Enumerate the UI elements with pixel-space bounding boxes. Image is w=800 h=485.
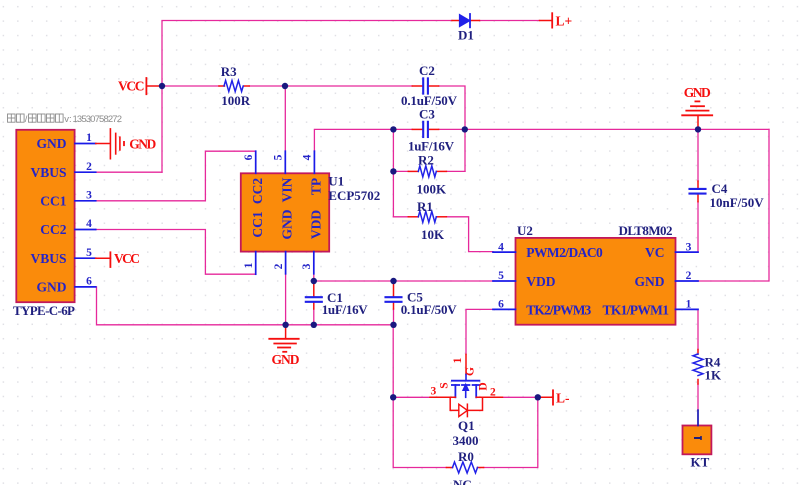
power VCC top	[146, 78, 162, 94]
svg-text:0.1uF/50V: 0.1uF/50V	[401, 302, 458, 317]
svg-text:D: D	[478, 382, 490, 390]
wire R0 loop right	[484, 397, 538, 467]
U2 pin 2 stub	[676, 280, 699, 282]
TYPE-C pin 4 stub	[75, 229, 96, 231]
svg-text:3: 3	[86, 189, 92, 201]
svg-text:R1: R1	[417, 199, 433, 214]
wire VDD row U1 pin3 to U2 pin5	[314, 274, 493, 281]
svg-text:1uF/16V: 1uF/16V	[408, 139, 455, 154]
wire right vertical down to U2 GND pin2	[698, 129, 769, 281]
wire GND node down to C4	[697, 129, 699, 181]
svg-text:GND: GND	[280, 209, 295, 239]
TYPE-C pin 6 stub	[75, 286, 96, 288]
svg-text:C4: C4	[712, 181, 728, 196]
ground GND below U1 pin2	[269, 325, 298, 352]
svg-text:2: 2	[86, 161, 92, 173]
svg-text:DLT8M02: DLT8M02	[619, 223, 673, 238]
svg-text:3400: 3400	[453, 433, 479, 448]
U2 pin 3 stub	[676, 251, 699, 253]
resistor R4	[693, 350, 703, 385]
wire R4 down to KT	[697, 384, 699, 410]
junction R2 left	[390, 168, 396, 174]
svg-text:CC2: CC2	[40, 222, 66, 237]
junction Q1 source node	[390, 394, 396, 400]
svg-text:D1: D1	[458, 28, 474, 43]
wire U1 VIN pin5 up to VCC node	[284, 86, 286, 151]
U2 pin numbers	[498, 241, 692, 310]
junction at VCC node	[159, 83, 165, 89]
svg-text:10K: 10K	[421, 227, 445, 242]
wire C5 node down to Q1 source node	[392, 325, 394, 398]
svg-text:10nF/50V: 10nF/50V	[710, 195, 765, 210]
wire U1 TP pin4 up and right to C3 row	[314, 129, 412, 151]
junction L- node	[535, 394, 541, 400]
svg-text:1: 1	[243, 262, 255, 268]
port L-	[538, 390, 553, 404]
svg-text:CC2: CC2	[250, 178, 265, 204]
wire ground rail from TYPE-C pin6	[96, 287, 394, 325]
U1 box	[241, 173, 329, 251]
svg-text:/: /	[25, 114, 28, 125]
svg-text:3: 3	[431, 386, 437, 398]
TYPE-C pin numbers	[86, 132, 92, 287]
svg-text:5: 5	[86, 247, 92, 259]
U1 pin 1 stub	[255, 252, 257, 275]
svg-text:TK2/PWM3: TK2/PWM3	[526, 302, 591, 317]
svg-text:1: 1	[686, 299, 692, 311]
wire C3 row long to right vertical	[439, 128, 769, 130]
wire R0 loop left	[393, 397, 446, 467]
wire C4 down to U2 pin3	[697, 202, 699, 252]
junction VDD rail at C1	[311, 278, 317, 284]
svg-text:3: 3	[686, 241, 692, 253]
svg-text:1uF/16V: 1uF/16V	[322, 302, 369, 317]
wire left divider vertical C3 to R1	[392, 129, 394, 216]
svg-text:6: 6	[243, 154, 255, 160]
wire Q1 source node to source lead	[393, 396, 430, 398]
TYPE-C pin 5 stub	[75, 257, 96, 259]
junction at R3 output / U1 VIN	[282, 83, 288, 89]
wire R1 right to U2 pin4	[446, 217, 493, 252]
svg-text:VCC: VCC	[118, 79, 145, 94]
svg-text:R2: R2	[418, 153, 434, 168]
svg-text:GND: GND	[129, 137, 156, 152]
wire U2 pin1 down to R4	[697, 309, 699, 349]
wire top rail from VCC node up and across to D1	[162, 21, 452, 173]
capacitor C1	[306, 284, 322, 310]
svg-text:5: 5	[498, 270, 504, 282]
svg-text:VDD: VDD	[526, 274, 555, 289]
svg-text:GND: GND	[37, 136, 67, 151]
wire Q1 drain to L- node	[503, 396, 538, 398]
TYPE-C pin names	[30, 136, 66, 294]
svg-text:KT: KT	[691, 454, 710, 469]
capacitor C5	[386, 284, 402, 310]
resistor R3	[219, 81, 249, 92]
resistor R2	[408, 166, 446, 177]
wire CC2 route TYPE-C pin4 to U1 pin1	[96, 230, 256, 275]
svg-text:CC1: CC1	[40, 194, 66, 209]
junction ground rail at C1	[311, 322, 317, 328]
svg-text:v:: v:	[64, 114, 71, 125]
svg-text:4: 4	[86, 218, 92, 230]
svg-text:13530758272: 13530758272	[73, 114, 123, 125]
svg-text:TK1/PWM1: TK1/PWM1	[603, 302, 670, 317]
KT pin stub	[697, 410, 699, 425]
svg-text:U2: U2	[517, 223, 533, 238]
resistor R0	[446, 462, 483, 473]
U1 pin numbers rotated	[243, 154, 314, 269]
svg-text:S: S	[439, 382, 451, 388]
svg-text:VDD: VDD	[309, 210, 324, 239]
U1 pin 5 stub	[284, 151, 286, 173]
svg-text:TP: TP	[309, 178, 324, 195]
svg-text:VCC: VCC	[114, 251, 140, 266]
port L+	[540, 13, 553, 27]
U2 pin 6 stub	[493, 308, 516, 310]
svg-text:6: 6	[86, 276, 92, 288]
wire C2 right down to R2 right	[439, 86, 465, 171]
junction VDD rail at C5	[390, 278, 396, 284]
junction GND / C4	[695, 126, 701, 132]
ground GND top right	[682, 101, 712, 129]
svg-text:VIN: VIN	[280, 177, 295, 202]
TYPE-C pin 1 stub	[75, 143, 96, 145]
capacitor C2	[412, 78, 438, 93]
U2 box	[516, 238, 676, 325]
U1 pin 3 stub	[313, 252, 315, 274]
header support text	[8, 114, 123, 125]
svg-text:L+: L+	[556, 14, 573, 29]
wire VCC row to R3	[162, 85, 219, 87]
wire CC1 route TYPE-C pin3 to U1 pin6	[96, 151, 256, 201]
U1 pin 2 stub	[285, 252, 287, 274]
junction ground rail at U1 pin2	[282, 322, 288, 328]
capacitor C3	[412, 122, 438, 137]
KT box	[683, 426, 712, 455]
U1 pin 4 stub	[313, 151, 315, 173]
U2 pin 5 stub	[493, 280, 516, 282]
capacitor C4	[690, 181, 706, 202]
wire R1 left	[393, 216, 408, 218]
svg-text:VBUS: VBUS	[30, 251, 66, 266]
TYPE-C pin 2 stub	[75, 171, 96, 173]
junction C3 left	[390, 126, 396, 132]
svg-text:C2: C2	[419, 63, 435, 78]
ground GND at TYPE-C pin1	[96, 129, 124, 159]
svg-text:NC: NC	[453, 477, 472, 485]
svg-text:PWM2/DAC0: PWM2/DAC0	[526, 245, 603, 260]
U1 pin 6 stub	[255, 151, 257, 173]
svg-text:4: 4	[498, 241, 504, 253]
power VCC at TYPE-C pin5	[96, 252, 111, 267]
svg-text:R3: R3	[221, 64, 237, 79]
wire C1 branch verticals	[313, 309, 315, 325]
svg-text:100R: 100R	[221, 93, 251, 108]
svg-text:3: 3	[301, 263, 313, 269]
svg-text:TYPE-C-6P: TYPE-C-6P	[13, 303, 75, 318]
svg-text:VC: VC	[645, 245, 665, 260]
svg-text:GND: GND	[684, 85, 711, 100]
wire VBUS pin2 row	[96, 171, 162, 173]
TYPE-C-6P connector box	[16, 130, 74, 302]
svg-text:6: 6	[498, 299, 504, 311]
svg-text:CC1: CC1	[250, 211, 265, 237]
U2 pin 4 stub	[493, 251, 516, 253]
svg-text:100K: 100K	[417, 182, 448, 197]
svg-text:C3: C3	[419, 107, 435, 122]
transistor Q1 mosfet	[430, 354, 503, 416]
svg-text:R0: R0	[458, 449, 474, 464]
wire R2 right	[446, 170, 465, 172]
svg-text:GND: GND	[635, 274, 665, 289]
wire D1 to L+	[479, 20, 539, 22]
svg-text:ECP5702: ECP5702	[328, 188, 380, 203]
svg-text:L-: L-	[556, 390, 570, 405]
svg-text:5: 5	[273, 154, 285, 160]
svg-text:2: 2	[686, 270, 692, 282]
wire C5 branch verticals	[393, 309, 395, 325]
junction ground rail at C5	[390, 322, 396, 328]
wire U1 pin2 down to ground rail	[285, 274, 287, 325]
KT inner pin dash	[694, 437, 702, 439]
svg-text:2: 2	[273, 263, 285, 269]
wire R3 to C2	[249, 85, 412, 87]
svg-text:GND: GND	[37, 280, 67, 295]
svg-text:2: 2	[490, 387, 496, 399]
wire U2 pin6 left and down to Q1 gate	[466, 309, 493, 354]
svg-text:1: 1	[86, 132, 92, 144]
svg-text:1: 1	[452, 357, 464, 363]
junction C3 right	[462, 126, 468, 132]
svg-text:GND: GND	[272, 352, 300, 367]
wire R2 left	[393, 170, 408, 172]
svg-text:VBUS: VBUS	[30, 165, 66, 180]
U1 pin names rotated	[250, 177, 324, 239]
svg-text:1K: 1K	[705, 368, 723, 383]
svg-text:U1: U1	[328, 174, 344, 189]
svg-text:4: 4	[302, 154, 314, 160]
diode D1	[452, 14, 479, 27]
resistor R1	[408, 211, 446, 222]
svg-text:G: G	[465, 367, 477, 376]
svg-text:Q1: Q1	[458, 418, 475, 433]
TYPE-C pin 3 stub	[75, 200, 96, 202]
U2 pin 1 stub	[676, 308, 699, 310]
